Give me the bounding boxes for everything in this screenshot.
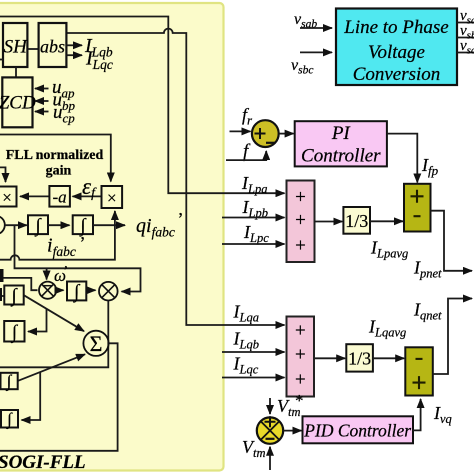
subtractor block 1 (olive, + -) bbox=[404, 184, 431, 232]
svg-text:fr: fr bbox=[242, 105, 253, 128]
svg-text:vsbc: vsbc bbox=[291, 57, 313, 77]
wire summing1 to 1/3 bbox=[315, 221, 343, 223]
wire v_sb output bbox=[457, 37, 474, 39]
wire -a to x-left bbox=[20, 195, 49, 197]
wire Sigma output right-down-left feedback bbox=[0, 343, 118, 451]
svg-text:-a: -a bbox=[53, 188, 67, 207]
svg-text:Ifp: Ifp bbox=[421, 155, 439, 178]
summing node (cut at left edge) bbox=[0, 216, 5, 235]
wire branch down into integrator 4 bbox=[22, 372, 41, 420]
wire multiplier1 to integrator m bbox=[56, 289, 63, 291]
svg-text:SOGI-FLL: SOGI-FLL bbox=[0, 452, 86, 473]
wire FLL feedback to multiplier (down into x-right box) bbox=[0, 135, 111, 182]
block 1/3 (second) bbox=[346, 344, 373, 371]
wire v_sc output bbox=[457, 52, 474, 54]
wire elbow into x-left box bbox=[0, 167, 6, 182]
SOGI-FLL yellow container bbox=[0, 3, 224, 471]
wire abs out arrow 1 bbox=[67, 44, 83, 46]
wire V_tm* arrow down into V circle bbox=[269, 398, 271, 414]
svg-text:*: * bbox=[295, 391, 304, 410]
wire omega arrow into multiplier1 top bbox=[46, 268, 48, 279]
svg-text:Σ: Σ bbox=[90, 331, 103, 356]
wire qi output bbox=[93, 224, 125, 226]
svg-text:ILpc: ILpc bbox=[243, 222, 269, 245]
wire V circle to PID bbox=[283, 430, 301, 432]
summing block 2 (pink, +++) bbox=[287, 317, 315, 397]
svg-text:PI: PI bbox=[331, 123, 352, 144]
wire PI output down into subtractor 1 bbox=[387, 134, 417, 183]
svg-text:gain: gain bbox=[46, 164, 72, 179]
svg-text:ILqa: ILqa bbox=[233, 302, 259, 325]
wire V_tm arrow up into V circle bbox=[269, 447, 271, 470]
wire diagonal integrator1 to Sigma bbox=[24, 295, 84, 331]
wire SH to ZCD bbox=[15, 67, 17, 77]
svg-text:Voltage: Voltage bbox=[368, 42, 425, 63]
svg-text:Line to Phase: Line to Phase bbox=[343, 17, 449, 38]
wire v_sbc arrow bbox=[300, 51, 332, 53]
wire branch down-left (wire A, hops at x15) bbox=[0, 225, 115, 260]
svg-text:1/3: 1/3 bbox=[348, 349, 371, 369]
svg-text:Controller: Controller bbox=[301, 146, 381, 167]
multiplier box x-right bbox=[102, 186, 123, 208]
wire SH to abs bbox=[27, 48, 38, 50]
svg-text:f: f bbox=[243, 141, 251, 162]
svg-text:ILpavg: ILpavg bbox=[370, 238, 408, 261]
summation circle Sigma bbox=[83, 331, 108, 356]
wire branch up into x-right bottom bbox=[114, 211, 116, 225]
integrator box 4 bbox=[1, 410, 18, 430]
wire subtractor2 output I_qnet bbox=[432, 299, 472, 375]
integrator box 1 bbox=[4, 286, 23, 308]
svg-text:FLL normalized: FLL normalized bbox=[6, 148, 104, 163]
summing circle f (dark yellow) bbox=[252, 120, 279, 147]
wire I_Lpc arrow bbox=[222, 243, 285, 245]
integrator box m bbox=[67, 282, 86, 304]
svg-text:+: + bbox=[295, 187, 306, 208]
wire I_Lpb arrow bbox=[222, 217, 285, 219]
svg-text:Conversion: Conversion bbox=[353, 64, 441, 85]
integrator box 3 bbox=[1, 372, 18, 392]
svg-text:Ipnet: Ipnet bbox=[413, 258, 442, 281]
wire u_cp arrow bbox=[35, 111, 49, 113]
svg-text:SH: SH bbox=[4, 37, 29, 58]
svg-text:+: + bbox=[295, 321, 306, 342]
multiplier box x-left bbox=[0, 187, 17, 208]
svg-text:ILqc: ILqc bbox=[233, 354, 259, 377]
wire PID up into subtractor 2 bbox=[413, 399, 421, 430]
block 1/3 (first) bbox=[343, 207, 370, 234]
wire top qi to I_Lpa (W1) bbox=[0, 17, 285, 194]
wire circle to PI bbox=[279, 133, 294, 135]
block abs bbox=[39, 23, 67, 67]
svg-text:ZCD: ZCD bbox=[0, 93, 36, 114]
svg-text:ILqb: ILqb bbox=[233, 329, 259, 352]
svg-text:+: + bbox=[295, 236, 306, 257]
wire v_sa output bbox=[457, 22, 474, 24]
summing block 1 (pink, +++) bbox=[287, 181, 315, 263]
wire stub into SH bbox=[0, 59, 3, 61]
integrator box a bbox=[28, 215, 48, 237]
wire abs out arrow 2 bbox=[67, 54, 83, 56]
svg-text:’: ’ bbox=[80, 233, 86, 253]
wire v_sab arrow bbox=[300, 27, 332, 29]
wire multiplier2 down, past sigma, to left (feedback) bbox=[0, 301, 108, 368]
svg-text:abs: abs bbox=[40, 37, 65, 57]
multiplier circle 2 bbox=[99, 282, 118, 301]
svg-text:+: + bbox=[295, 370, 306, 391]
svg-text:×: × bbox=[2, 188, 12, 207]
wire f_r arrow into sum bbox=[230, 130, 251, 132]
block cut at left edge (black) bbox=[0, 269, 4, 282]
wire B from sum-wire down right to multiplier2 bbox=[15, 225, 141, 291]
summing circle V (yellow, X) bbox=[257, 416, 283, 444]
wire u_ap arrow bbox=[35, 88, 49, 90]
svg-text:ILpb: ILpb bbox=[242, 197, 268, 220]
wire summing2 to 1/3 second bbox=[315, 357, 345, 359]
wire I_Lqc arrow bbox=[222, 377, 285, 379]
wire black box to multiplier1 bbox=[4, 278, 38, 290]
svg-text:1/3: 1/3 bbox=[345, 211, 368, 231]
svg-text:PID Controller: PID Controller bbox=[303, 421, 411, 441]
block edge cut at left (bar) bbox=[0, 288, 2, 301]
wire sum to integrator a bbox=[5, 224, 27, 226]
svg-text:+: + bbox=[295, 345, 306, 366]
wire 1/3 second to subtractor 2 bbox=[373, 357, 404, 359]
wire from abs to I_Lqa (W2, hops over W1 vertical) bbox=[67, 29, 285, 325]
wire u_bp arrow bbox=[35, 100, 49, 102]
wire 1/3 to subtractor 1 bbox=[370, 220, 403, 222]
svg-text:’: ’ bbox=[178, 209, 184, 229]
wire integrator m to multiplier 2 bbox=[86, 289, 95, 291]
integrator box b bbox=[73, 215, 93, 237]
wire branch down into integrator 2 bbox=[28, 309, 47, 332]
wire x-right to -a bbox=[73, 195, 102, 197]
svg-text:Iqnet: Iqnet bbox=[413, 300, 442, 323]
integrator box 2 bbox=[4, 321, 24, 344]
gain block -a bbox=[49, 186, 70, 207]
block PI Controller bbox=[295, 121, 387, 166]
block Line to Phase Voltage Conversion bbox=[336, 9, 457, 86]
wire f elbow up into circle bbox=[226, 151, 266, 160]
svg-text:×: × bbox=[107, 189, 117, 208]
block SH bbox=[3, 23, 28, 67]
wire integrator a to b bbox=[48, 224, 70, 226]
wire diagonal integrator3 to Sigma bbox=[18, 354, 85, 381]
svg-text:Ivq: Ivq bbox=[433, 403, 452, 426]
wire I_Lqb arrow bbox=[222, 351, 285, 353]
subtractor block 2 (olive, - +) bbox=[405, 347, 433, 395]
wire stub into integrator 1 bbox=[2, 295, 4, 297]
block PID Controller bbox=[303, 416, 414, 443]
block ZCD bbox=[0, 77, 36, 127]
svg-text:+: + bbox=[295, 210, 306, 231]
multiplier circle 1 bbox=[39, 282, 56, 299]
svg-text:’: ’ bbox=[64, 264, 69, 279]
svg-text:ILqavg: ILqavg bbox=[368, 317, 406, 340]
svg-text:ILpa: ILpa bbox=[241, 173, 267, 196]
wire subtractor1 output I_pnet bbox=[431, 211, 473, 271]
